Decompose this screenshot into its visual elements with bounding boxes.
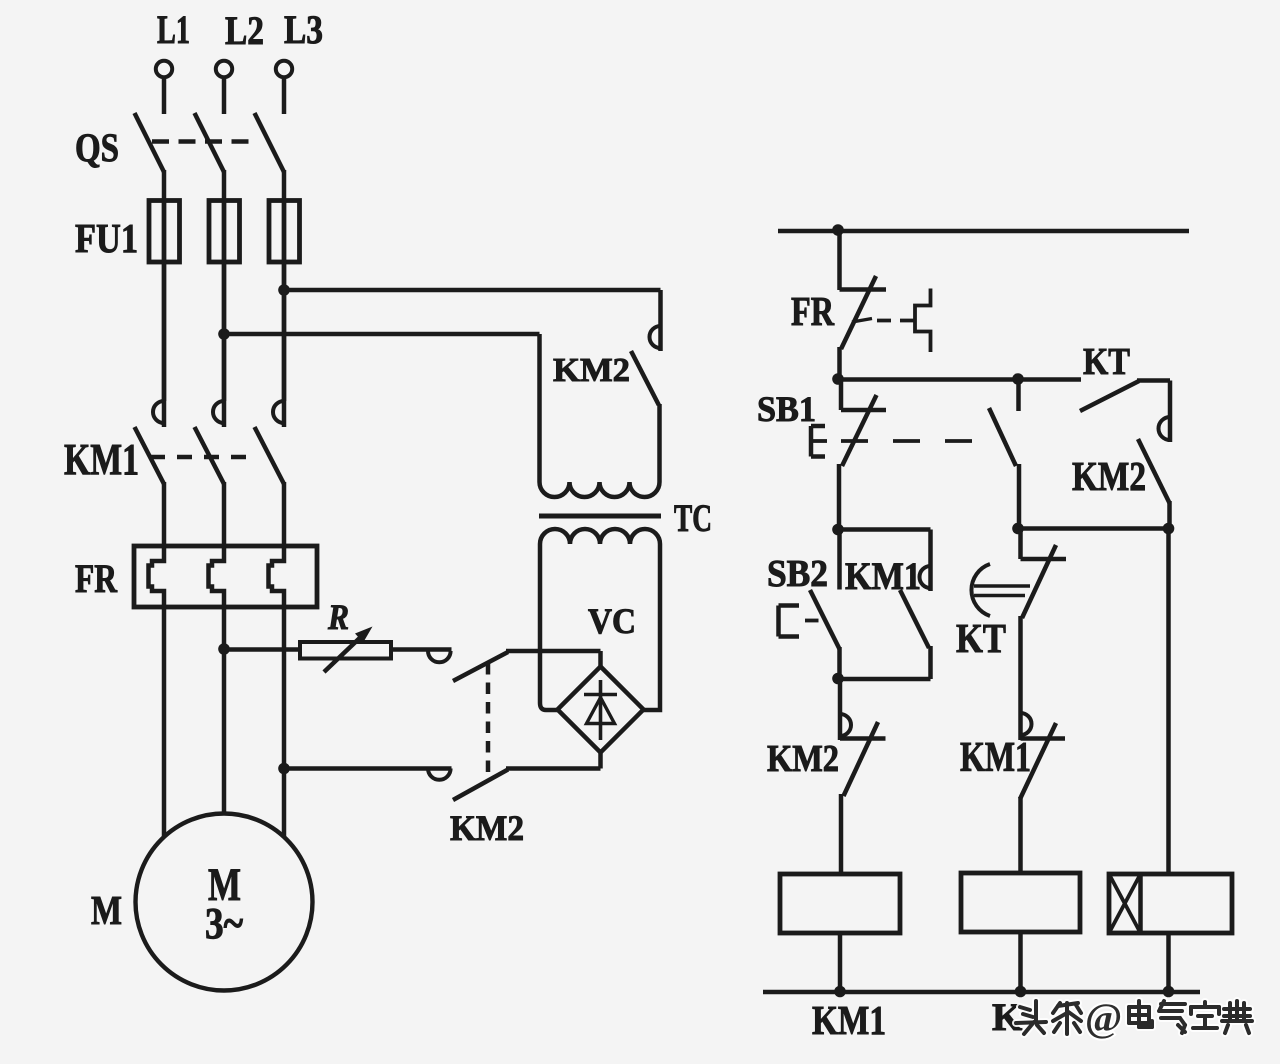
node junction FR / row wire (832, 373, 844, 385)
thermal relay FR NC contact (control) (840, 231, 887, 380)
svg-text:KM1: KM1 (812, 997, 886, 1043)
svg-text:SB2: SB2 (767, 553, 828, 595)
label L3 (284, 7, 323, 52)
label FR (overload heaters) (75, 556, 118, 601)
node junction L3/top wire (278, 284, 290, 296)
transformer TC secondary winding (540, 529, 660, 710)
node junction SB1NO / row wire 2 (1012, 523, 1024, 535)
svg-text:FR: FR (791, 288, 834, 334)
label KM1 (main contacts) (64, 435, 139, 484)
thermal relay FR heater element 2 (209, 546, 225, 607)
disconnect QS linkage dashed line (152, 139, 256, 144)
fuse FU1 pole 1 (149, 201, 180, 263)
pushbutton SB2 NO contact (810, 530, 840, 680)
svg-text:VC: VC (588, 601, 636, 641)
svg-text:KT: KT (956, 615, 1006, 661)
label FR (control) (791, 288, 834, 334)
time relay KT NC delayed contact (1021, 529, 1067, 714)
label FU1 (75, 215, 138, 261)
SB2 button actuator (779, 606, 819, 637)
contactor KM2 aux contact (upper, to rectifier +) (428, 651, 601, 681)
wire feeder to transformer primary (224, 332, 540, 337)
node junction phase3/lower branch (278, 763, 290, 775)
disconnect switch QS pole 1 blade (135, 113, 165, 202)
svg-text:KM2: KM2 (767, 738, 839, 780)
contactor KM2 main contact (transformer feed) (631, 290, 661, 405)
svg-text:SB1: SB1 (757, 389, 816, 429)
wire bottom control bus (763, 990, 1200, 995)
wire phase 3 FR to motor (282, 605, 287, 838)
SB1 linkage dashed line (813, 439, 985, 443)
label SB2 (767, 553, 828, 595)
thermal relay FR heater element 1 (149, 546, 165, 607)
wire top feeder to KM2 main contact (284, 288, 661, 293)
resistor R (adjustable) (300, 627, 391, 673)
wire top control bus (778, 229, 1189, 234)
coil KM1 (780, 874, 900, 993)
SB1 button actuator (811, 426, 825, 457)
node L3 terminal (276, 61, 292, 114)
label KM2 (aux contacts) (450, 808, 524, 848)
label L1 (157, 7, 190, 52)
rectifier bridge VC diamond (558, 667, 644, 753)
svg-text:FU1: FU1 (75, 215, 138, 261)
label KM2 (main contact) (553, 352, 630, 389)
node junction KT coil / bottom bus (1163, 986, 1175, 998)
wire phase2 to resistor R (224, 647, 300, 652)
label L2 (225, 8, 264, 53)
rectifier VC diode symbol (584, 680, 617, 740)
wire phase 1 FR to motor (162, 605, 167, 837)
svg-text:KM2: KM2 (450, 808, 524, 848)
wire phase 3 fuse to KM1 (282, 200, 287, 401)
node junction phase2/R branch (218, 643, 230, 655)
motor M 3~ circle (136, 814, 313, 991)
label KM2 (right branch) (1072, 453, 1146, 499)
node junction SB1 / SB2 parallel box (832, 524, 844, 536)
wire phase 2 fuse to KM1 (222, 200, 227, 401)
svg-text:KT: KT (1083, 341, 1130, 383)
contactor KM2 aux contact (lower, to rectifier -) (284, 751, 601, 800)
node junction row1 / SB1 NO branch (1012, 373, 1024, 385)
label VC (588, 601, 636, 641)
label R (327, 597, 349, 637)
contactor KM1 NC interlock contact (1020, 713, 1065, 873)
transformer TC core line (539, 514, 661, 519)
node junction KM2 coil / bottom bus (1015, 986, 1027, 998)
pushbutton SB1 NC contact (839, 380, 886, 531)
svg-text:L3: L3 (284, 7, 323, 52)
FR trip actuator symbol (915, 289, 931, 353)
watermark 头条 @电气宝典 (1016, 1001, 1252, 1034)
pushbutton SB1 NO contact (linked) (989, 380, 1019, 531)
contactor KM1 main contact pole 2 (195, 200, 225, 547)
svg-text:K: K (992, 996, 1023, 1039)
wire parallel box top (838, 527, 931, 532)
node junction L2/transformer wire (218, 328, 230, 340)
node L2 terminal (216, 61, 232, 114)
wire phase 1 fuse to KM1 (162, 200, 167, 401)
coil KT (time relay, with X box) (1109, 874, 1232, 993)
node junction row2 / KT coil branch (1163, 523, 1175, 535)
label KT (delayed contact) (956, 615, 1006, 661)
label KM1 (coil) (812, 997, 886, 1043)
wire control row 1 (838, 377, 1081, 382)
wire KT coil branch vertical (1166, 529, 1171, 875)
wire phase 2 FR to motor (222, 605, 227, 814)
FR contact linkage dashes (877, 319, 916, 323)
KT delay symbol (arc with double bar) (971, 564, 1030, 616)
disconnect switch QS pole 3 blade (255, 113, 285, 202)
svg-text:KM1: KM1 (960, 735, 1031, 781)
disconnect switch QS pole 2 blade (195, 113, 225, 202)
svg-text:KM1: KM1 (845, 555, 921, 598)
svg-text:L2: L2 (225, 8, 264, 53)
label KM2 (interlock) (767, 738, 839, 780)
label M (outside) (91, 887, 122, 933)
svg-text:R: R (327, 597, 349, 637)
KM1 main contacts linkage dashed line (150, 455, 256, 460)
contactor KM2 aux contact (right branch) (1138, 439, 1170, 529)
contactor KM1 main contact pole 1 (135, 200, 165, 547)
coil KM2 (961, 873, 1080, 993)
label KT (NO contact) (1083, 341, 1130, 383)
wire control row 2 (1018, 526, 1169, 531)
svg-text:TC: TC (674, 497, 712, 540)
node junction KM1 coil / bottom bus (834, 986, 846, 998)
label KM1 (self-hold) (845, 555, 921, 598)
fuse FU1 pole 3 (269, 201, 300, 263)
wire R to KM2 contact (391, 647, 452, 652)
svg-text:KM2: KM2 (553, 352, 630, 389)
time relay KT NO contact (instantaneous) (1080, 381, 1170, 443)
KM2 aux contacts linkage dashed line (486, 663, 491, 781)
svg-text:M: M (91, 887, 122, 933)
label TC (674, 497, 712, 540)
label SB1 (757, 389, 816, 429)
contactor KM1 aux NO contact (self-hold) (900, 530, 931, 680)
thermal relay FR box (134, 546, 317, 607)
wire parallel box bottom (838, 677, 931, 682)
svg-text:3~: 3~ (205, 899, 243, 948)
node junction parallel box bottom (832, 673, 844, 685)
svg-text:FR: FR (75, 556, 118, 601)
contactor KM1 main contact pole 3 (255, 200, 285, 547)
transformer TC primary winding (540, 334, 660, 497)
label KM1 (interlock) (960, 735, 1031, 781)
contactor KM2 NC interlock contact (840, 679, 886, 874)
node L1 terminal (156, 61, 172, 114)
node junction top bus / FR branch (832, 224, 844, 236)
svg-text:KM1: KM1 (64, 435, 139, 484)
svg-text:L1: L1 (157, 7, 190, 52)
svg-text:QS: QS (75, 125, 119, 170)
label 3~ (inside motor) (205, 899, 243, 948)
label KM2 (coil, partly covered) (992, 996, 1023, 1039)
label M (inside motor) (208, 859, 241, 911)
thermal relay FR heater element 3 (269, 546, 285, 607)
svg-text:KM2: KM2 (1072, 453, 1146, 499)
svg-text:@: @ (1085, 995, 1122, 1040)
fuse FU1 pole 2 (209, 201, 240, 263)
label QS (75, 125, 119, 170)
